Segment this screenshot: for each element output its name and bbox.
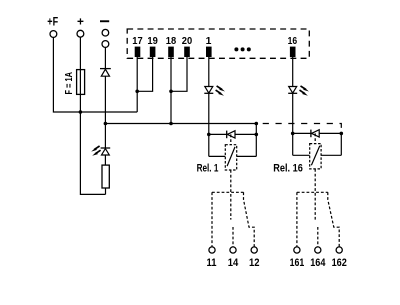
pin 17 block bbox=[135, 47, 141, 57]
terminal 14 circle bbox=[230, 247, 236, 253]
Rel16 terminal 164 lead bbox=[317, 227, 319, 247]
minus rail solid segment bbox=[105, 123, 256, 125]
Rel1 coil bottom wire left bbox=[209, 155, 226, 157]
Rel16 linkage below coil bbox=[314, 169, 316, 220]
Rel.1 label bbox=[197, 162, 219, 174]
diode D1 (reverse polarity, cathode up) bbox=[100, 69, 111, 77]
svg-text:Rel. 1: Rel. 1 bbox=[197, 162, 219, 174]
LED2 emission arrows bbox=[300, 86, 309, 96]
svg-text:16: 16 bbox=[288, 36, 298, 47]
wire fuse to bottom-left corner of LED branch bbox=[80, 94, 105, 194]
Rel16 coil diagonal bbox=[311, 146, 319, 165]
minus rail dashed segment to Rel16 bbox=[263, 124, 342, 134]
Rel16 NC lead with slant to 162 bbox=[328, 192, 339, 247]
Rel16 terminal 161 lead bbox=[296, 192, 298, 247]
terminal + circle bbox=[77, 30, 84, 37]
Rel1 linkage below coil bbox=[230, 170, 232, 220]
terminal 164 label bbox=[310, 257, 325, 269]
wire pin 16 down to LED2 bbox=[292, 57, 294, 87]
terminal +F label bbox=[47, 14, 58, 28]
wire Rel1 right branch down bbox=[255, 124, 257, 157]
junction dot diode line right Rel16 bbox=[340, 132, 344, 136]
svg-text:19: 19 bbox=[147, 36, 158, 47]
power LED V1 (cathode bar up, arrows left) bbox=[101, 124, 111, 166]
svg-text:11: 11 bbox=[207, 257, 217, 269]
LED1 emission arrows bbox=[216, 86, 225, 96]
terminal + label bbox=[77, 14, 84, 28]
freewheeling diode D2 Rel1 bbox=[227, 131, 235, 139]
LED1 (Rel.1 indicator) bbox=[204, 87, 213, 94]
Rel16 linkage stub above coil bbox=[314, 133, 316, 143]
pin 19 block bbox=[150, 47, 156, 57]
pin 16 block bbox=[290, 47, 296, 57]
wire pin 18 down to minus rail bbox=[170, 57, 172, 124]
svg-text:17: 17 bbox=[132, 36, 143, 47]
pin 19 label bbox=[147, 36, 158, 47]
junction dot pins 18/20 bbox=[169, 90, 173, 94]
LED2 (Rel.16 indicator) bbox=[288, 87, 297, 94]
Rel1 contact bar bbox=[212, 191, 244, 193]
wire pin 17 down to rail A bbox=[136, 57, 138, 112]
terminal 162 circle bbox=[336, 247, 342, 253]
svg-text:1: 1 bbox=[206, 36, 212, 47]
Rel1 coil diagonal bbox=[227, 147, 235, 166]
pin 17 label bbox=[132, 36, 143, 47]
power LED emission arrows bbox=[91, 146, 100, 156]
junction dot minus rail at Rel1 right branch bbox=[254, 122, 258, 126]
junction dot + rail A bbox=[79, 110, 83, 114]
Rel1 NC lead with slant to 12 bbox=[244, 192, 255, 247]
pin 1 label bbox=[206, 36, 212, 47]
svg-text:161: 161 bbox=[290, 257, 305, 269]
svg-text:18: 18 bbox=[166, 36, 177, 47]
fuse F=1A body bbox=[77, 70, 85, 95]
ellipsis dots bbox=[234, 47, 250, 51]
terminal +F circle bbox=[50, 31, 57, 38]
svg-text:162: 162 bbox=[332, 257, 347, 269]
terminal minus lower circle bbox=[102, 41, 109, 48]
svg-text:+F: +F bbox=[47, 14, 58, 28]
pin 18 label bbox=[166, 36, 177, 47]
terminal minus label bbox=[100, 20, 109, 22]
terminal 11 label bbox=[207, 257, 217, 269]
wire pin 1 down to LED1 bbox=[208, 57, 210, 87]
Rel.16 label bbox=[273, 162, 303, 174]
wire LED2 to coil branch bbox=[292, 93, 294, 155]
terminal 14 label bbox=[228, 257, 239, 269]
terminal 161 label bbox=[290, 257, 305, 269]
resistor R1 bbox=[102, 165, 109, 188]
svg-text:164: 164 bbox=[310, 257, 325, 269]
pin 20 block bbox=[184, 47, 190, 57]
junction dot diode line right Rel1 bbox=[254, 133, 258, 137]
Rel1 terminal 14 lead bbox=[232, 227, 234, 247]
Rel16 coil bottom wire left bbox=[293, 154, 310, 156]
wire LED1 to coil branch bbox=[208, 93, 210, 156]
Rel1 terminal 11 lead bbox=[211, 192, 213, 247]
connector dashed box bbox=[127, 29, 309, 58]
relay coil box Rel1 bbox=[225, 145, 236, 170]
junction dot minus rail at pin18 bbox=[169, 122, 173, 126]
svg-text:+: + bbox=[77, 14, 84, 28]
wire diode D1 to minus rail node bbox=[104, 76, 106, 123]
freewheeling diode line Rel1 bbox=[209, 133, 256, 135]
Rel16 coil bottom wire right bbox=[321, 154, 341, 156]
terminal 11 circle bbox=[209, 247, 215, 253]
pin 20 label bbox=[182, 36, 193, 47]
wire minus terminal to diode D1 bbox=[104, 47, 106, 68]
svg-text:F = 1A: F = 1A bbox=[64, 72, 75, 95]
wire pin 20 down and left bbox=[171, 57, 187, 91]
junction dot diode line left Rel16 bbox=[291, 132, 295, 136]
fuse value label F = 1A bbox=[64, 72, 75, 95]
freewheeling diode D3 Rel16 bbox=[311, 130, 319, 138]
Rel1 coil bottom wire right bbox=[237, 155, 257, 157]
wire +F down and right to pin17 node (rail A) bbox=[53, 37, 137, 112]
terminal 12 label bbox=[249, 257, 260, 269]
Rel16 contact bar bbox=[297, 191, 328, 193]
junction dot minus rail start bbox=[104, 122, 108, 126]
relay coil box Rel16 bbox=[310, 144, 321, 169]
terminal 164 circle bbox=[315, 247, 321, 253]
pin 1 block bbox=[206, 47, 212, 57]
wire + terminal to fuse bbox=[79, 37, 81, 70]
junction dot diode line left Rel1 bbox=[207, 133, 211, 137]
terminal 162 label bbox=[332, 257, 347, 269]
pin 18 block bbox=[168, 47, 174, 57]
wire resistor to corner bbox=[105, 188, 107, 194]
svg-text:20: 20 bbox=[182, 36, 193, 47]
Rel1 linkage stub above coil bbox=[230, 134, 232, 144]
wire pin 19 down and left bbox=[137, 57, 152, 91]
freewheeling diode line Rel16 bbox=[293, 132, 342, 134]
junction dot pins 17/19 bbox=[135, 90, 139, 94]
terminal 161 circle bbox=[294, 247, 300, 253]
terminal minus upper circle bbox=[102, 29, 109, 36]
svg-text:12: 12 bbox=[249, 257, 260, 269]
pin 16 label bbox=[288, 36, 298, 47]
svg-text:Rel. 16: Rel. 16 bbox=[273, 162, 303, 174]
terminal 12 circle bbox=[251, 247, 257, 253]
svg-text:14: 14 bbox=[228, 257, 239, 269]
wire Rel16 right branch down bbox=[340, 133, 342, 155]
